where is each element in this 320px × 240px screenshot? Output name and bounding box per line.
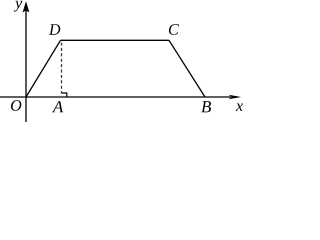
label D [49,24,60,35]
y-axis [25,11,27,123]
dashed altitude DA [61,43,63,94]
side DC (top edge) [61,39,170,41]
side OD (wire O to D) [26,40,61,97]
label x [236,104,243,111]
x-axis arrowhead [229,95,242,100]
label O [11,100,21,111]
right-angle marker at A [62,93,67,97]
side CB [169,40,205,97]
label C [169,24,179,35]
label y [14,1,22,12]
label B [201,101,211,112]
x-axis [0,96,231,98]
label A [52,101,63,112]
y-axis arrowhead [23,1,30,12]
